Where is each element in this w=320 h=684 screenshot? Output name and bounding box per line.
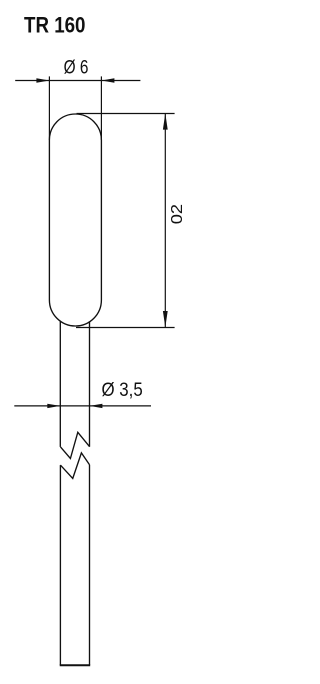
svg-text:02: 02: [169, 204, 186, 224]
tube upper right line: [89, 321, 91, 446]
dimension 20 up arrow: [163, 113, 168, 129]
dimension Ø3,5 line: [14, 405, 151, 407]
dimension 20 bottom extension line: [76, 327, 175, 329]
dimension Ø3,5 right arrow: [89, 404, 102, 408]
tube bottom end line: [60, 664, 90, 666]
svg-text:TR 160: TR 160: [24, 13, 86, 38]
dimension 20 label: [169, 204, 186, 224]
tube upper left line: [59, 321, 61, 447]
dimension Ø6 label: [64, 57, 89, 79]
svg-text:Ø 6: Ø 6: [64, 57, 89, 79]
svg-text:Ø 3,5: Ø 3,5: [102, 379, 143, 401]
dimension Ø6 left extension line: [48, 76, 50, 140]
dimension 20 down arrow: [163, 311, 168, 328]
break symbol upper zigzag: [61, 432, 90, 458]
dimension Ø6 right arrow: [101, 78, 114, 82]
dimension 20 top extension line: [77, 113, 175, 115]
tube lower right line: [89, 465, 91, 665]
dimension Ø3,5 label: [102, 379, 143, 401]
tube lower left line: [59, 465, 61, 665]
probe capsule body: [49, 114, 101, 326]
dimension 20 line: [164, 114, 166, 328]
dimension Ø3,5 left arrow: [47, 404, 60, 408]
break symbol lower zigzag: [60, 453, 89, 479]
dimension Ø6 left arrow: [36, 78, 49, 82]
dimension Ø6 right extension line: [100, 76, 102, 140]
title TR 160: [24, 13, 86, 38]
dimension Ø6 line: [15, 80, 140, 82]
